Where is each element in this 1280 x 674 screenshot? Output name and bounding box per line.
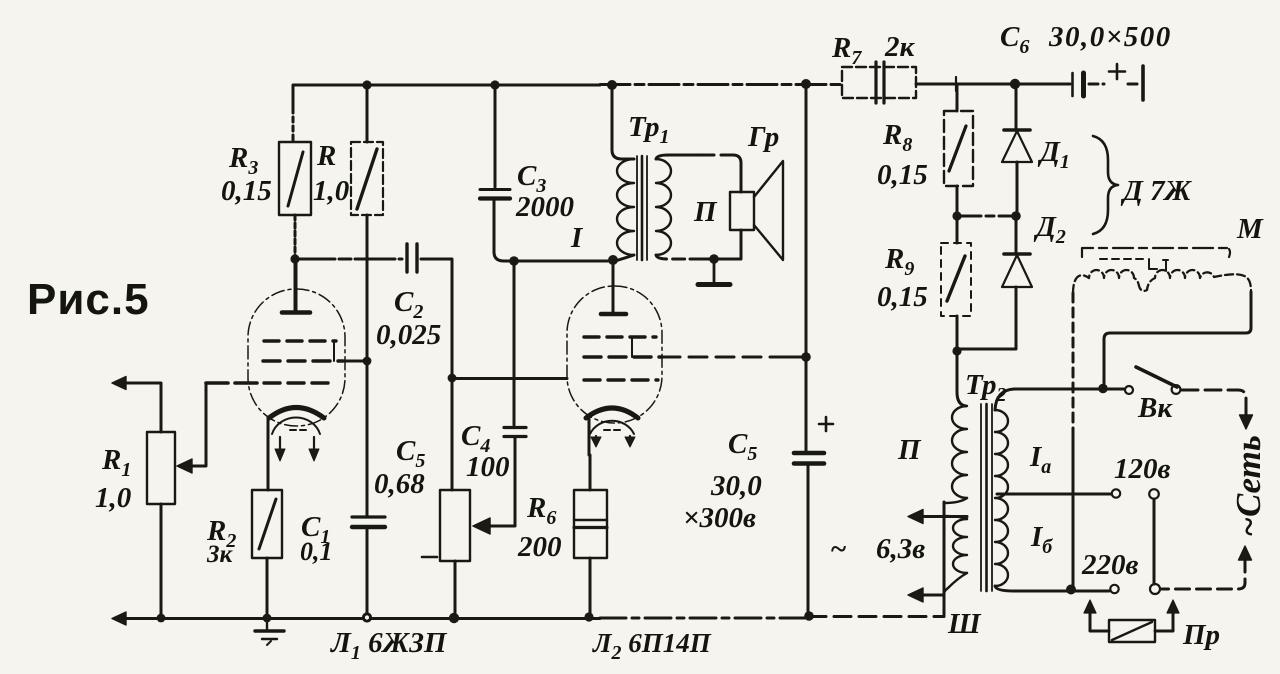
node R9 / Д2 — [952, 346, 961, 355]
switch Вк — [1125, 386, 1133, 394]
wire R4 to screen grid of L1 — [366, 215, 369, 517]
svg-text:30,0×500: 30,0×500 — [1048, 21, 1172, 53]
svg-text:Вк: Вк — [1137, 392, 1173, 424]
capacitor C5 — [794, 451, 824, 456]
node rail/R2 — [263, 614, 272, 623]
node top rail / diode string — [1010, 79, 1020, 89]
plus mark of C5 — [819, 417, 833, 431]
wire B+ vertical with C5 — [805, 84, 808, 451]
heater lead arrow 2 — [915, 594, 944, 597]
svg-text:~Сеть: ~Сеть — [1229, 435, 1268, 537]
transformer Тр2 winding II lead — [957, 351, 966, 406]
transformer Тр1 primary winding I — [612, 85, 634, 159]
chassis ground below R2 — [266, 618, 268, 630]
wire secondary to speaker bottom — [656, 255, 690, 259]
winding III of Тр2 (6,3в) — [944, 516, 967, 519]
svg-text:R: R — [316, 140, 336, 172]
resistor R3 — [292, 108, 295, 142]
motor lead right — [1104, 292, 1251, 388]
potentiometer R5 0,68 — [451, 378, 454, 490]
node motor left lead / bottom wire — [1066, 585, 1076, 595]
svg-text:2к: 2к — [884, 31, 916, 63]
capacitor C6 — [1068, 83, 1070, 86]
grid row 1 of Л2 — [584, 335, 656, 338]
grid row 2 (screen) of Л1 — [263, 359, 343, 362]
svg-text:0,68: 0,68 — [374, 468, 425, 500]
potentiometer R1 1,0 — [147, 432, 175, 504]
resistor R6 200 — [589, 455, 592, 490]
svg-text:1,0: 1,0 — [313, 175, 349, 207]
winding I (primary) of Тр2 — [995, 410, 1008, 586]
node top rail / C3 — [490, 80, 499, 89]
svg-text:120в: 120в — [1114, 453, 1171, 485]
heater of Л1 — [272, 417, 320, 434]
svg-text:П: П — [897, 434, 922, 466]
mains arrow up (bottom) — [1239, 546, 1252, 560]
svg-text:0,025: 0,025 — [376, 319, 441, 351]
wire primary bottom 220в — [1014, 590, 1109, 593]
plus mark of C6 — [1109, 64, 1125, 79]
wire top B+ rail left segment — [293, 85, 600, 110]
node anode L1 — [290, 254, 299, 263]
node rail/C5 — [804, 611, 814, 621]
node speaker return / chassis stub — [709, 254, 719, 264]
capacitor C2 — [405, 244, 408, 272]
svg-text:6,3в: 6,3в — [876, 533, 925, 565]
svg-text:×300в: ×300в — [683, 502, 756, 534]
transformer Тр1 secondary winding — [656, 159, 671, 255]
svg-text:220в: 220в — [1081, 549, 1139, 581]
core of Тр2 — [980, 404, 982, 591]
terminal 220в left — [1110, 585, 1118, 593]
resistor R2 3к — [252, 490, 282, 558]
loudspeaker Гр cone — [754, 161, 783, 260]
cathode of Л1 — [269, 408, 324, 419]
wire C2 to grid of L2 — [421, 259, 452, 378]
motor inner marks — [1100, 258, 1144, 260]
wire secondary to speaker top — [656, 155, 700, 159]
wire R8 node to diode node — [957, 215, 1016, 218]
brace Д7Ж — [1093, 136, 1118, 234]
capacitor C4 — [513, 261, 516, 425]
wire switch to mains — [1182, 390, 1246, 418]
svg-text:Д 7Ж: Д 7Ж — [1120, 175, 1193, 207]
heater lead arrow 1 — [915, 515, 967, 518]
diode Д1 — [1015, 84, 1018, 130]
svg-text:Л1 6ЖЗП: Л1 6ЖЗП — [330, 627, 448, 664]
minus mark at R5 — [422, 556, 437, 559]
terminal 120в right — [1149, 489, 1159, 499]
loudspeaker Гр voice coil — [730, 192, 754, 230]
svg-text:0,1: 0,1 — [300, 537, 333, 566]
anode of Л1 — [282, 310, 310, 315]
diode Д2 — [1015, 216, 1018, 254]
resistor R9 0,15 — [956, 216, 959, 243]
winding II of Тр2 — [952, 406, 967, 498]
wire top rail right of R7 — [916, 83, 1068, 86]
node rail/R6 — [584, 612, 593, 621]
grid row 1 of Л1 — [264, 339, 336, 342]
resistor R7 2к — [842, 67, 916, 98]
wire anode L1 to C2 — [295, 258, 402, 261]
node between diodes — [1011, 211, 1021, 221]
svg-text:1,0: 1,0 — [95, 482, 131, 514]
svg-text:200: 200 — [517, 531, 562, 563]
node R8 tap tick — [955, 77, 957, 91]
node anode L2 / Tr1 primary bottom — [608, 255, 618, 265]
node screen junction L1 — [363, 357, 372, 366]
svg-text:I: I — [570, 222, 584, 254]
wire Д2 anode to R9 node — [957, 287, 1016, 349]
resistor R4 — [366, 85, 369, 142]
capacitor C3 — [494, 85, 497, 187]
cathode of Л2 — [586, 408, 638, 418]
mains arrow down — [1240, 415, 1253, 429]
resistor R8 0,15 — [956, 84, 959, 111]
node rail/C1 (open) — [363, 614, 370, 621]
svg-text:30,0: 30,0 — [710, 470, 762, 502]
capacitor C1 0,1 — [352, 515, 385, 518]
svg-text:Гр: Гр — [747, 121, 779, 153]
tube Л1 envelope — [248, 289, 345, 426]
motor lead left — [1072, 293, 1075, 430]
input terminal arrow top — [112, 377, 126, 390]
tube Л2 envelope — [567, 286, 662, 423]
terminal bar after C6 — [1141, 66, 1145, 100]
svg-text:100: 100 — [466, 451, 510, 483]
wiper of R1 — [177, 459, 192, 473]
svg-text:~: ~ — [830, 533, 847, 565]
link between plug terminals — [1153, 499, 1156, 584]
fuse Пр — [1084, 600, 1096, 613]
terminal 120в left — [1112, 489, 1120, 497]
anode of Л2 — [601, 312, 626, 317]
svg-text:Ш: Ш — [947, 608, 982, 640]
svg-text:0,15: 0,15 — [877, 159, 928, 191]
svg-text:0,15: 0,15 — [221, 175, 272, 207]
node R8/R9 — [952, 211, 961, 220]
tap 120в of Тр2 — [997, 493, 1111, 496]
node top rail / R4 — [362, 80, 371, 89]
core of Тр1 — [636, 156, 638, 260]
svg-text:3к: 3к — [206, 541, 234, 568]
node rail/R5 — [449, 613, 459, 623]
wiper arrow of R5 — [473, 518, 490, 534]
terminal 220в right — [1150, 584, 1160, 594]
motor M shield dashed — [1082, 248, 1229, 257]
node C3/C4/anode wire — [509, 256, 519, 266]
node rail/R1 — [157, 614, 166, 623]
wire node to anode L2 — [514, 260, 612, 263]
node screen/B+ — [801, 352, 811, 362]
node grid junction L2 — [448, 374, 457, 383]
wire screen Л2 to B+ vertical — [662, 356, 770, 359]
heater of Л2 — [590, 421, 634, 434]
svg-text:Рис.5: Рис.5 — [27, 275, 150, 324]
node motor lead / switch wire — [1098, 384, 1108, 394]
svg-text:Пр: Пр — [1182, 619, 1220, 651]
node top rail / screen line — [801, 79, 811, 89]
node top rail / Tr1 primary — [607, 80, 617, 90]
motor windings — [1073, 270, 1251, 293]
grid row 3 (control) of Л2 — [584, 378, 658, 381]
svg-text:П: П — [693, 196, 718, 228]
grid row 3 (control) of Л1 — [264, 381, 330, 384]
wire rail up to Tr2 winding II bottom — [943, 502, 946, 616]
wire bottom ground rail — [112, 612, 126, 625]
grid row 2 (screen) of Л2 — [584, 355, 662, 358]
svg-text:0,15: 0,15 — [877, 281, 928, 313]
wire primary top to switch — [1014, 388, 1124, 391]
chassis stub below speaker loop — [713, 259, 716, 282]
svg-text:2000: 2000 — [515, 191, 574, 223]
svg-text:М: М — [1236, 213, 1264, 245]
